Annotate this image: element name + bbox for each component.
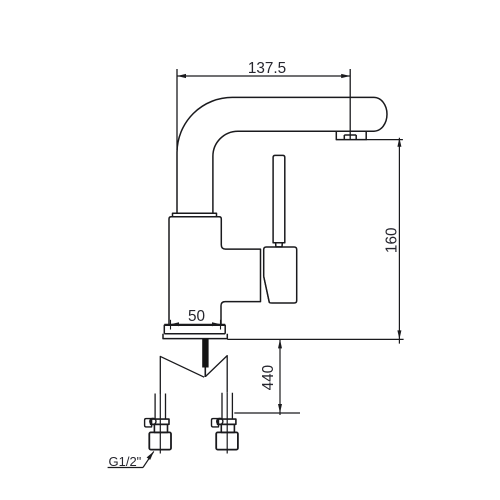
G1/2 leader arrow [147, 451, 154, 460]
aerator housing [336, 131, 366, 139]
base plate upper [164, 325, 225, 334]
right connector tube [222, 393, 232, 419]
stud tail line [204, 368, 206, 378]
dimension 440 line [279, 339, 281, 415]
spout outline [177, 97, 387, 213]
shared extension line at deck level [227, 338, 403, 340]
svg-text:160: 160 [383, 228, 400, 254]
right connector center line [226, 393, 228, 454]
left connector tab [145, 419, 152, 427]
dimension 160 arrow top [397, 138, 401, 147]
left connector collar [151, 419, 169, 424]
handle lever stick [273, 155, 285, 242]
left supply hose [160, 356, 204, 393]
dimension 440 arrow bottom [278, 404, 282, 413]
dimension 440 extension line bottom [234, 412, 300, 414]
faucet body [169, 217, 261, 325]
dimension 137.5 arrow right [341, 74, 350, 78]
left connector tube [155, 394, 165, 420]
dimension 137.5 extension line right [349, 69, 351, 140]
handle neck [276, 243, 283, 247]
right connector collar 2 [221, 424, 234, 432]
right connector collar [218, 419, 236, 424]
dimension 440 arrow top [278, 339, 282, 348]
left connector collar 2 [154, 424, 167, 432]
svg-text:137.5: 137.5 [248, 60, 286, 77]
dimension 160 arrow bottom [397, 330, 401, 339]
right connector tab [212, 419, 219, 427]
svg-text:G1/2": G1/2" [109, 454, 142, 469]
left connector tab ring [150, 418, 156, 424]
dimension 160 line [398, 138, 400, 344]
mounting flange under spout [173, 213, 217, 217]
dimension 50 line [164, 323, 225, 325]
base plate lower [163, 334, 227, 339]
right connector tab ring [217, 418, 223, 424]
G1/2 leader underline [108, 467, 143, 469]
right connector nut [216, 432, 238, 449]
dimension 50 arrow right [212, 322, 221, 326]
aerator insert [344, 135, 356, 140]
dimension 160 extension line top [366, 139, 403, 141]
G1/2 leader line [143, 451, 154, 467]
dimension 137.5 line [177, 75, 350, 77]
svg-text:50: 50 [188, 308, 205, 325]
valve housing / lever cap [264, 247, 297, 303]
left connector center line [159, 394, 161, 454]
dimension 137.5 arrow left [177, 74, 186, 78]
dimension 50 extension tick right [220, 320, 222, 330]
dimension 50 arrow left [171, 322, 180, 326]
left connector nut [149, 432, 171, 449]
svg-text:440: 440 [260, 365, 277, 391]
dimension 137.5 extension line left [176, 69, 178, 150]
right supply hose [206, 356, 228, 393]
dimension 50 extension tick left [170, 320, 172, 330]
threaded mounting stud [202, 339, 208, 368]
lever cap diagonal edge [264, 276, 270, 302]
